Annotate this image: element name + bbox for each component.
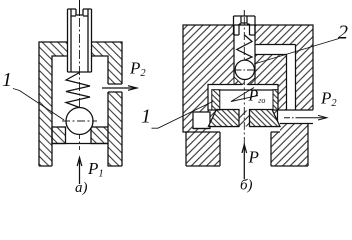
bottom slot outline fig B — [193, 127, 280, 129]
adjusting screw fig B — [234, 16, 256, 35]
arrow P fig B — [242, 145, 247, 180]
arrow P1 fig A — [77, 158, 82, 185]
pilot seat wedge left fig B — [234, 77, 242, 85]
seat bottom line fig A — [52, 143, 108, 145]
Pgo leader arrow fig B — [231, 88, 258, 102]
leader line 1 fig A — [13, 89, 64, 121]
overflow channel vertical cavity fig B — [287, 55, 296, 111]
left notch outline fig B — [193, 112, 210, 129]
chamber bottom line fig B — [208, 109, 278, 111]
feet edges fig B — [186, 132, 308, 166]
feet gap cavity fig B — [220, 132, 271, 167]
svg-text:1: 1 — [141, 106, 151, 128]
leader line 1 fig B — [152, 101, 214, 128]
outlet passage lines fig A — [108, 84, 122, 92]
seat block right fig A — [91, 127, 108, 144]
centerline fig A — [79, 0, 81, 16]
cavity outlines fig B — [183, 25, 313, 166]
outlet passage cavity fig B — [278, 110, 352, 124]
left notch cavity fig B — [193, 112, 210, 129]
area below body fig B — [176, 167, 352, 201]
body outline fig A — [39, 42, 122, 166]
spring fig B — [237, 35, 252, 60]
pilot ball fig B — [235, 60, 254, 79]
centerline fig B — [243, 10, 245, 16]
ball horizontal centerline fig A — [62, 120, 97, 122]
ball horizontal centerline fig B — [235, 69, 258, 71]
body fig A: right wall upper hatched — [108, 56, 122, 84]
body fig B: hatched mass — [183, 25, 313, 166]
arrow P2 fig A — [102, 86, 137, 91]
body outline fig B — [183, 25, 313, 166]
screw column cavity outline fig B — [234, 25, 255, 78]
svg-text:P: P — [248, 148, 259, 167]
body fig A: top plate right hatched — [92, 42, 123, 56]
overflow channel outline fig B — [255, 45, 296, 111]
body fig A: left wall hatched — [39, 56, 52, 166]
seat pedestal left fig B — [208, 110, 239, 127]
svg-text:а): а) — [75, 180, 88, 196]
piston chamber cavity fig B — [208, 85, 278, 111]
feet bottom edges fig A — [39, 165, 122, 167]
piston chamber outline fig B — [208, 85, 278, 111]
adjusting screw fig A — [68, 9, 92, 72]
piston shoulder right fig B — [273, 90, 278, 110]
svg-text:2: 2 — [338, 22, 348, 44]
svg-text:б): б) — [240, 178, 253, 194]
ball fig A — [66, 108, 93, 135]
P2 axis arrow fig B — [284, 115, 327, 120]
right side step clearance fig B — [308, 124, 352, 201]
seat block left fig A — [52, 127, 66, 144]
bottom slot cavity fig B — [208, 127, 280, 133]
left side step clearance fig B — [183, 132, 186, 200]
svg-text:1: 1 — [2, 69, 12, 91]
spring fig A — [66, 73, 90, 108]
piston top line fig B — [220, 89, 273, 91]
body inner cavity outline fig A — [52, 56, 108, 166]
body fig A: top plate left hatched — [39, 42, 68, 56]
pilot seat wedge right fig B — [248, 78, 256, 85]
piston shoulder left fig B — [212, 90, 220, 110]
body fig A: right wall lower hatched — [108, 92, 122, 166]
screw column cavity fig B — [234, 25, 255, 83]
overflow channel horizontal cavity fig B — [255, 45, 296, 55]
seat pedestal right fig B — [250, 110, 281, 127]
outlet passage outline fig B — [278, 110, 314, 124]
leader line 2 fig B — [254, 39, 339, 65]
